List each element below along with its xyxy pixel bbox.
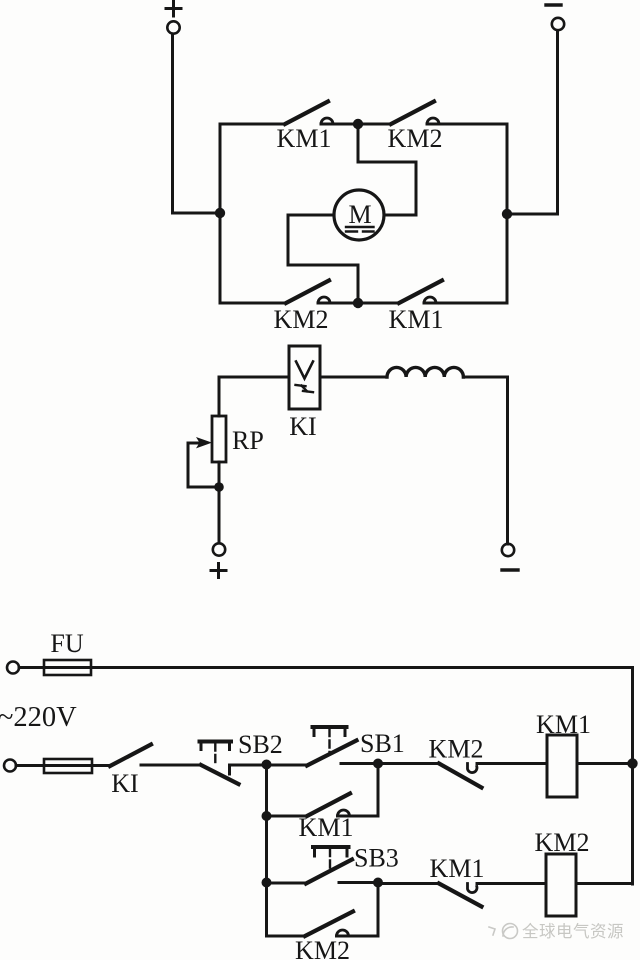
node: right rail junction: [502, 209, 512, 219]
fuse FU: [44, 660, 91, 675]
svg-text:SB3: SB3: [354, 844, 399, 873]
wire bottom bridge middle segment: [318, 302, 399, 305]
wire bottom bridge left segment: [220, 302, 286, 305]
node H: SB3 row left junction: [262, 878, 272, 888]
watermark logo: [489, 924, 518, 939]
wire top bridge middle segment: [321, 123, 391, 126]
push button SB2 (NC stop): [200, 742, 239, 785]
node A: top bridge junction: [353, 119, 363, 129]
wire KM2 aux row right up to node I: [337, 883, 379, 937]
svg-text:KM1: KM1: [277, 124, 332, 153]
svg-text:KI: KI: [111, 769, 138, 798]
wire top bridge right segment: [427, 123, 507, 126]
wire fuse2 to KI contact: [92, 764, 110, 767]
wire KI to inductor: [320, 376, 387, 379]
svg-text:SB2: SB2: [238, 730, 283, 759]
wire right bridge rail: [506, 124, 509, 303]
svg-text:KM1: KM1: [536, 710, 591, 739]
wire KM2 aux row left: [267, 935, 306, 938]
wire KM1 interlock to coil KM2: [477, 882, 546, 885]
terminal - (DC supply negative): [546, 5, 564, 30]
wire node D to SB1: [230, 764, 308, 767]
wire motor left lead to bottom bridge: [288, 215, 358, 303]
wire node D branch down: [265, 765, 268, 937]
relay KI (overcurrent relay coil): [289, 346, 320, 409]
node C: wiper tie junction: [214, 482, 224, 492]
wire SB3 row left: [267, 882, 307, 885]
wire left bridge rail: [219, 124, 222, 303]
terminal L1 (fuse row input): [7, 662, 19, 674]
contact KM1 (NC interlock): [439, 884, 482, 907]
contact KM1 (NO main, top left): [285, 102, 333, 125]
terminal L2 (second row input): [4, 760, 16, 772]
svg-text:KM2: KM2: [388, 124, 443, 153]
node: left rail junction: [215, 208, 225, 218]
wire from - terminal to right rail: [507, 31, 558, 215]
coil KM2: [546, 854, 576, 916]
terminal - (armature output negative): [502, 544, 518, 570]
contact KM2 (NO main, top right): [391, 102, 439, 125]
svg-text:KM2: KM2: [429, 735, 484, 764]
svg-text:KM2: KM2: [274, 305, 329, 334]
svg-text:KI: KI: [289, 412, 316, 441]
contact KM2 (NO aux parallel SB3): [305, 912, 353, 937]
node F: right rail junction: [627, 758, 637, 768]
contact KM1 (NO self-holding aux): [307, 794, 350, 817]
svg-text:KM1: KM1: [430, 854, 485, 883]
wire bottom bridge right segment: [424, 302, 507, 305]
svg-text:KM1: KM1: [389, 305, 444, 334]
coil KM1: [547, 735, 577, 797]
contact KM2 (NC interlock): [439, 764, 482, 788]
wire armature loop top left: [219, 376, 289, 379]
contact KM2 (NO main, bottom left): [286, 281, 330, 304]
wire RP bottom to output +: [218, 462, 221, 543]
svg-text:全球电气资源: 全球电气资源: [522, 922, 624, 941]
inductor L (smoothing reactor): [387, 367, 463, 377]
svg-text:~220V: ~220V: [0, 702, 77, 733]
push button SB1 (NO start forward): [307, 727, 378, 766]
svg-text:RP: RP: [232, 426, 264, 455]
contact KI (overcurrent relay NO contact): [110, 745, 151, 767]
wire coil KM2 to right rail: [576, 882, 633, 885]
wire terminal to fuse FU: [19, 666, 44, 669]
wire self-hold row right up to node E: [338, 764, 379, 817]
contact KM1 (NO main, bottom right): [399, 281, 442, 304]
motor M: [334, 190, 384, 240]
wire left side down to RP: [218, 377, 221, 416]
svg-text:FU: FU: [50, 629, 83, 658]
node G: self-hold branch junction: [262, 811, 272, 821]
wire terminal to fuse 2: [16, 764, 44, 767]
wire KI contact to SB2: [141, 764, 201, 767]
push button SB3 (NO start reverse): [306, 847, 378, 884]
wire right control rail down: [631, 668, 634, 885]
wire from + terminal to left rail: [173, 34, 221, 213]
wire node E to KM2 interlock: [378, 762, 439, 765]
wire top bridge left segment: [220, 123, 285, 126]
node E: SB1 output junction: [373, 759, 383, 769]
rheostat RP: [212, 416, 226, 462]
svg-text:M: M: [348, 200, 371, 229]
terminal + (DC supply positive): [166, 2, 181, 34]
node I: SB3 output junction: [373, 878, 383, 888]
wire self-hold row left: [267, 815, 308, 818]
wire inductor to right drop: [463, 376, 507, 379]
wire coil KM1 to right rail: [577, 762, 633, 765]
wire FU to right control rail: [91, 666, 633, 669]
svg-text:SB1: SB1: [360, 729, 405, 758]
node B: bottom bridge junction: [353, 298, 363, 308]
svg-text:KM2: KM2: [535, 828, 590, 857]
wire node A to motor right lead: [358, 124, 416, 215]
wire node I to KM1 interlock: [378, 882, 439, 885]
svg-text:KM2: KM2: [295, 936, 350, 960]
terminal + (armature output positive): [211, 543, 226, 577]
wire right side down to output -: [506, 377, 509, 544]
node D: SB2 output junction: [262, 760, 272, 770]
fuse FU2: [44, 759, 92, 773]
RP wiper arrow: [188, 437, 214, 487]
wire KM2 interlock to coil KM1: [477, 762, 547, 765]
